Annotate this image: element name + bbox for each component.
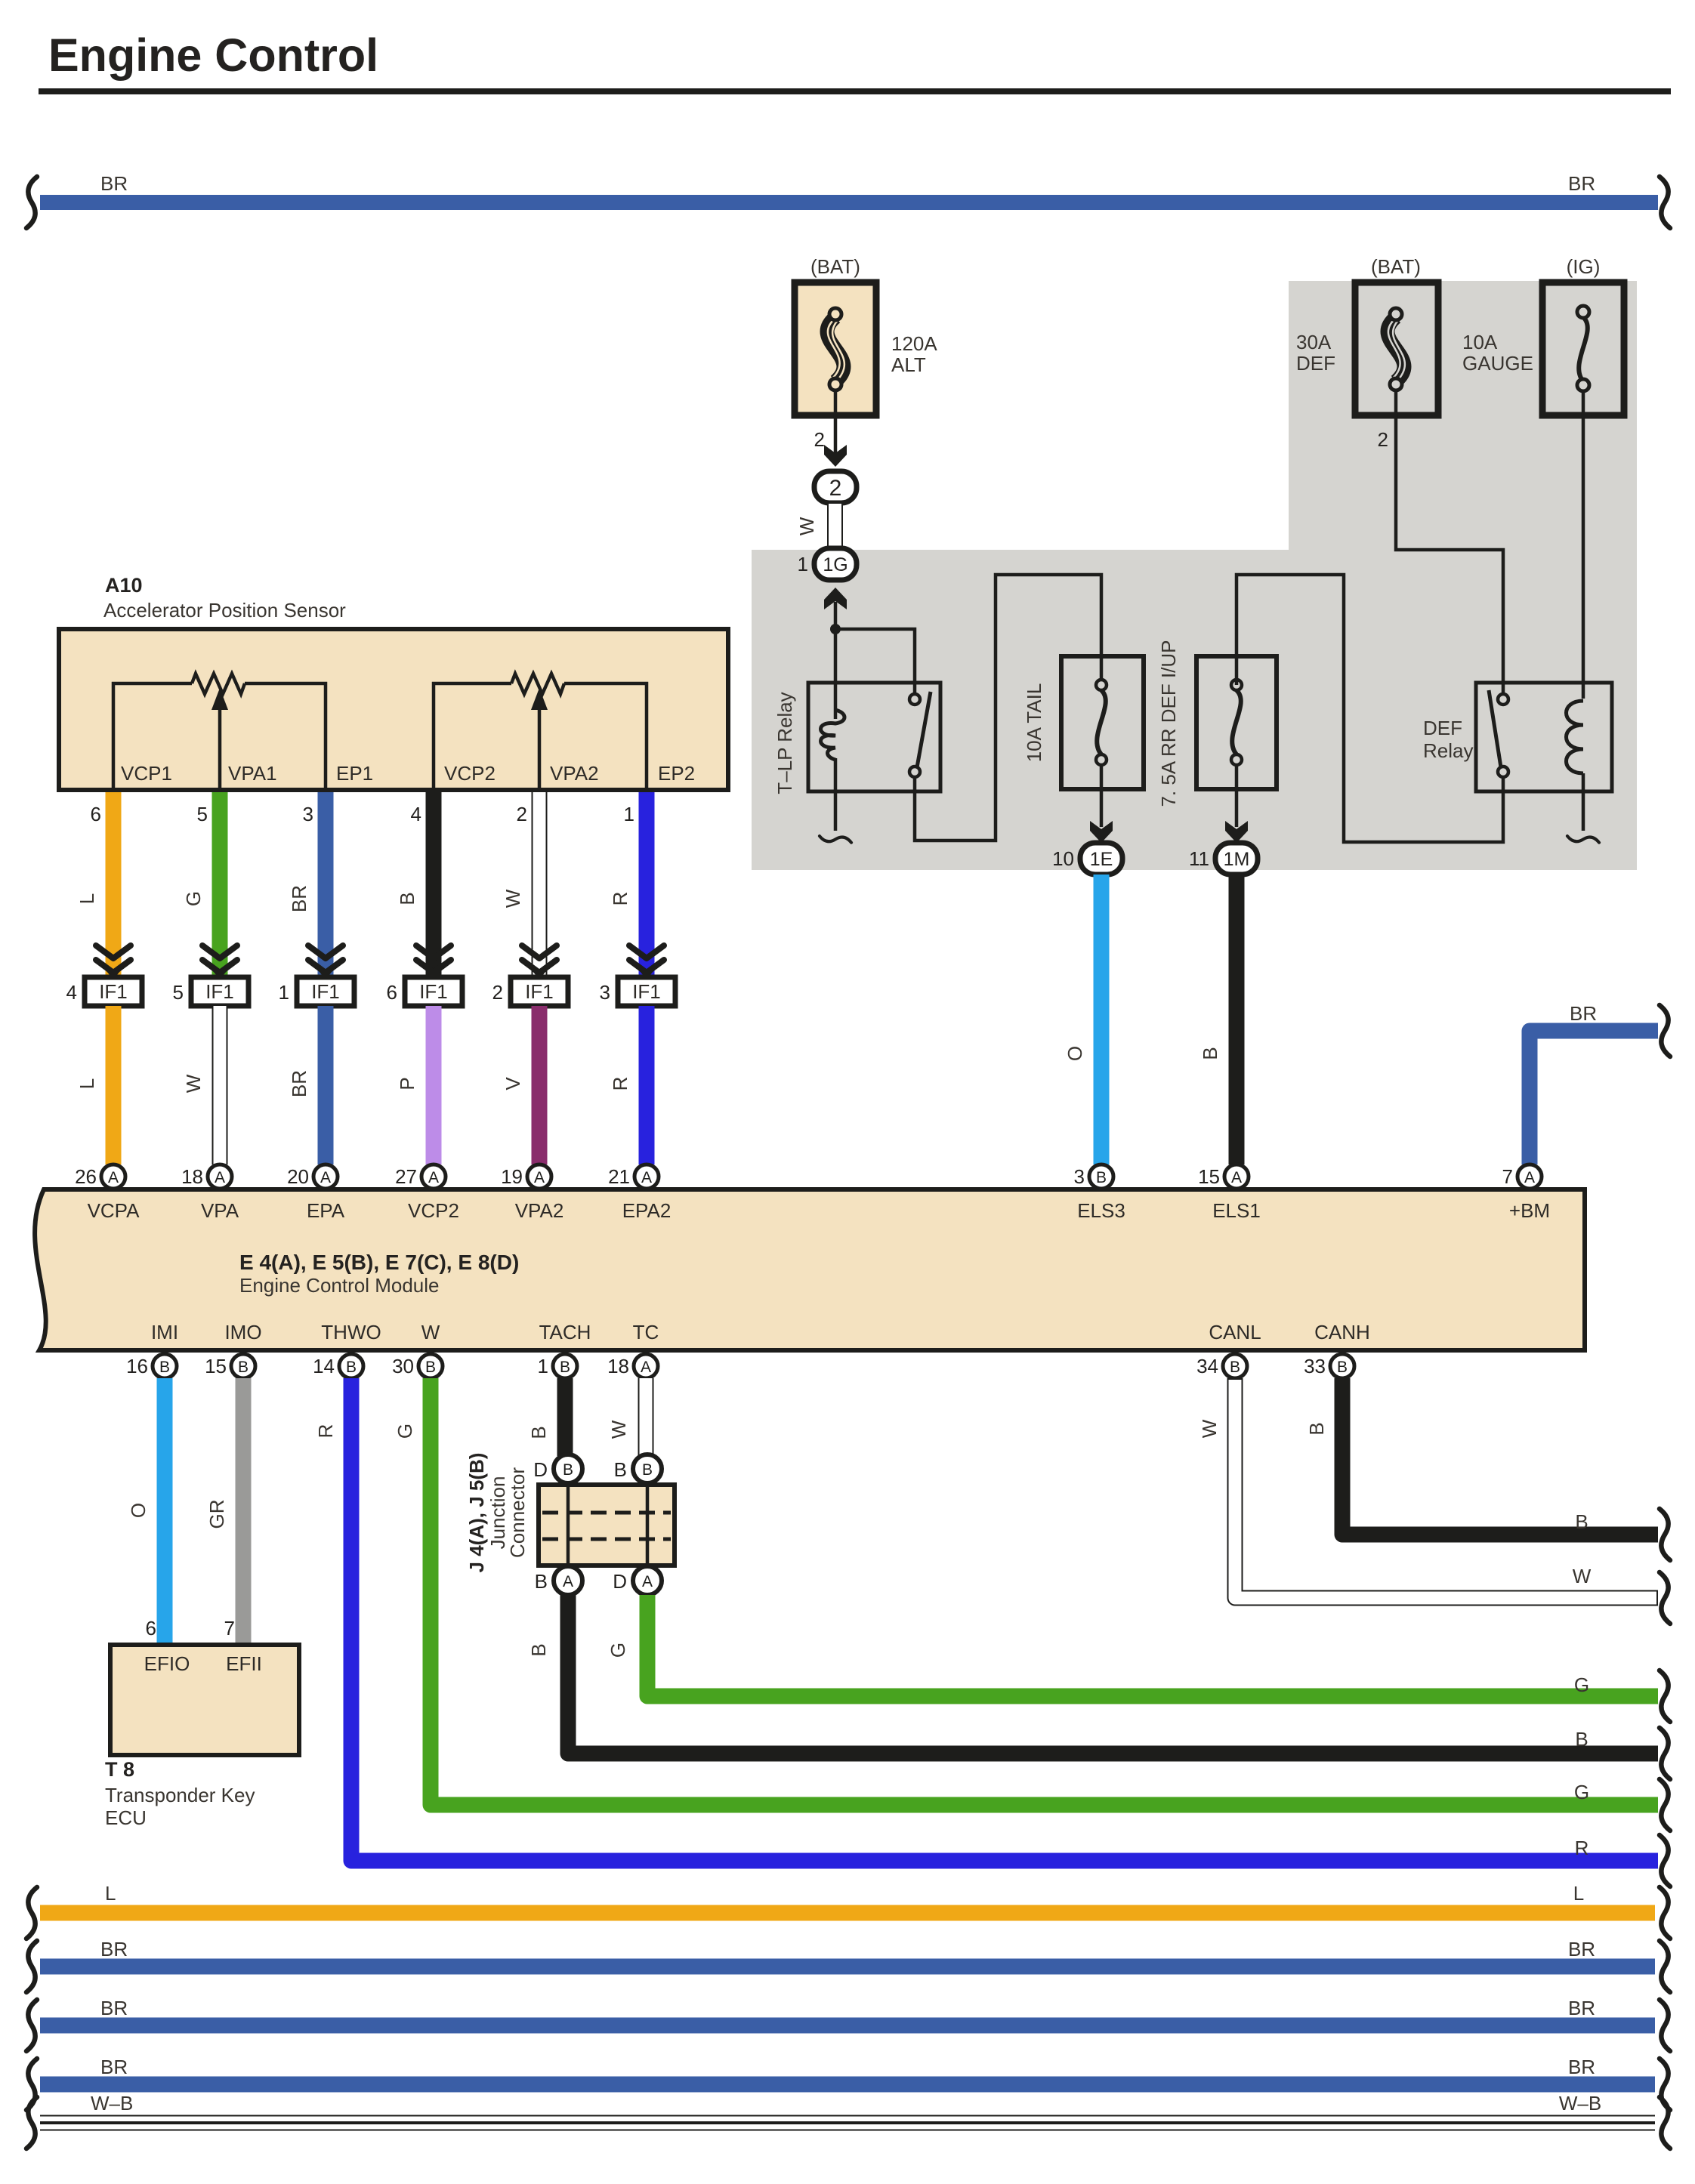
- wire G from W pin down and right: [394, 1378, 1658, 1805]
- svg-text:20: 20: [287, 1165, 309, 1188]
- svg-text:BR: BR: [100, 1938, 128, 1960]
- svg-text:EFII: EFII: [226, 1652, 262, 1675]
- svg-text:B: B: [527, 1426, 550, 1439]
- svg-text:CANH: CANH: [1314, 1321, 1370, 1343]
- svg-text:7: 7: [1502, 1165, 1513, 1188]
- node pin 19 A VPA2: [501, 1164, 551, 1189]
- svg-text:7. 5A RR DEF I/UP: 7. 5A RR DEF I/UP: [1157, 640, 1180, 807]
- connector IF1 #6: [387, 977, 462, 1006]
- svg-text:IMO: IMO: [224, 1321, 261, 1343]
- svg-text:BR: BR: [288, 885, 310, 912]
- svg-text:DEF: DEF: [1423, 717, 1462, 739]
- svg-text:1: 1: [624, 803, 634, 825]
- svg-text:A: A: [428, 1169, 439, 1186]
- connector arrow up out of 1G: [824, 588, 847, 609]
- svg-text:A: A: [108, 1169, 119, 1186]
- svg-text:18: 18: [181, 1165, 203, 1188]
- svg-text:6: 6: [146, 1617, 156, 1640]
- wire B from junction down and right: [527, 1595, 1658, 1754]
- wire BR to ECM +BM with break curl: [1530, 1002, 1658, 1164]
- svg-text:G: G: [1574, 1781, 1589, 1803]
- svg-text:W: W: [502, 889, 524, 908]
- svg-text:21: 21: [608, 1165, 630, 1188]
- svg-text:Transponder Key: Transponder Key: [105, 1784, 255, 1806]
- svg-text:7: 7: [224, 1617, 235, 1640]
- svg-text:VCP2: VCP2: [408, 1199, 459, 1222]
- connector arrow into 1M: [1225, 821, 1248, 843]
- svg-text:BR: BR: [100, 172, 128, 195]
- wire BR bottom row 3: [40, 2056, 1655, 2093]
- wire L IF1 to ECM pin 26: [76, 1006, 122, 1164]
- fuse 120A ALT: [795, 255, 937, 415]
- wire pin2 30A DEF to DEF relay: [1378, 390, 1503, 695]
- svg-text:IF1: IF1: [205, 980, 234, 1003]
- connector oval 1G: [798, 548, 857, 580]
- wire R IF1 to ECM pin 21: [609, 1006, 655, 1164]
- potentiometer 1 (VCP1/VPA1/EP1): [113, 674, 326, 790]
- svg-text:B: B: [425, 1359, 436, 1376]
- svg-text:IF1: IF1: [419, 980, 448, 1003]
- svg-text:4: 4: [66, 981, 77, 1004]
- wire R from EP2 pin 1: [609, 792, 655, 976]
- svg-text:10A TAIL: 10A TAIL: [1023, 683, 1045, 763]
- wire W TC to junction connector: [607, 1378, 654, 1456]
- svg-text:W: W: [1573, 1565, 1592, 1587]
- wire BR bottom row 2: [40, 1997, 1655, 2034]
- wire T-LP switch to 10A TAIL fuse: [915, 575, 1101, 841]
- svg-text:GAUGE: GAUGE: [1462, 352, 1533, 375]
- svg-text:EPA2: EPA2: [622, 1199, 672, 1222]
- connector oval 1M: [1189, 843, 1258, 875]
- node pin 18 A TC: [607, 1354, 658, 1378]
- wire B CANH down and right: [1305, 1378, 1658, 1535]
- svg-text:BR: BR: [288, 1070, 310, 1097]
- fuse 30A DEF: [1296, 255, 1438, 415]
- svg-text:IF1: IF1: [632, 980, 661, 1003]
- svg-text:33: 33: [1304, 1355, 1326, 1377]
- svg-text:D: D: [613, 1570, 627, 1593]
- svg-text:B: B: [563, 1461, 573, 1479]
- svg-text:EP1: EP1: [336, 762, 373, 785]
- svg-text:R: R: [314, 1424, 337, 1439]
- svg-text:G: G: [1574, 1673, 1589, 1696]
- ECM Engine Control Module box: [35, 1189, 1585, 1350]
- svg-text:B: B: [560, 1359, 570, 1376]
- connector IF1 #4: [66, 977, 142, 1006]
- wire V IF1 to ECM pin 19: [502, 1006, 548, 1164]
- svg-text:EFIO: EFIO: [144, 1652, 190, 1675]
- svg-text:ECU: ECU: [105, 1806, 147, 1829]
- node pin 16 B IMI: [126, 1354, 177, 1378]
- connector IF1 #1: [279, 977, 354, 1006]
- wire W CANL down and right: [1198, 1378, 1658, 1598]
- node junction dot: [830, 624, 841, 634]
- connector IF1 #3: [600, 977, 675, 1006]
- wire O IMI to EFIO: [127, 1378, 173, 1645]
- svg-text:W: W: [1198, 1419, 1221, 1438]
- svg-text:W: W: [795, 517, 818, 535]
- wire BR from EP1 pin 3: [288, 792, 334, 976]
- svg-text:34: 34: [1196, 1355, 1218, 1377]
- svg-text:BR: BR: [1568, 2056, 1595, 2078]
- wire B TACH to junction connector: [527, 1378, 573, 1456]
- wire G from VPA1 pin 5: [182, 792, 228, 976]
- connector oval 1E: [1052, 843, 1122, 875]
- wire BR top horizontal: [40, 172, 1658, 210]
- fuse 10A TAIL: [1023, 656, 1144, 789]
- wire B from 1M to ECM ELS1: [1199, 875, 1245, 1164]
- svg-text:26: 26: [75, 1165, 97, 1188]
- svg-text:16: 16: [126, 1355, 148, 1377]
- wire break curl top-left: [26, 177, 37, 228]
- svg-text:30A: 30A: [1296, 331, 1332, 353]
- svg-text:A: A: [641, 1169, 652, 1186]
- wire BR IF1 to ECM pin 20: [288, 1006, 334, 1164]
- svg-text:D: D: [533, 1458, 548, 1481]
- svg-text:A10: A10: [105, 574, 143, 597]
- svg-text:1E: 1E: [1090, 849, 1113, 870]
- svg-text:BR: BR: [100, 2056, 128, 2078]
- wire W-B bottom row: [40, 2092, 1655, 2131]
- svg-text:IF1: IF1: [311, 980, 340, 1003]
- pin labels inside A10: [121, 762, 695, 785]
- svg-text:VPA1: VPA1: [228, 762, 277, 785]
- svg-text:E 4(A), E 5(B), E 7(C), E 8(D): E 4(A), E 5(B), E 7(C), E 8(D): [239, 1251, 519, 1274]
- svg-text:THWO: THWO: [321, 1321, 381, 1343]
- wire P IF1 to ECM pin 27: [396, 1006, 442, 1164]
- node pin 15 B IMO: [205, 1354, 255, 1378]
- svg-text:1: 1: [798, 553, 808, 575]
- wire 10A TAIL to 1E: [1100, 765, 1104, 827]
- wire 10A GAUGE to DEF relay coil: [1582, 391, 1585, 699]
- svg-text:B: B: [1337, 1359, 1348, 1376]
- connector IF1 #2: [492, 977, 568, 1006]
- svg-text:A: A: [642, 1573, 653, 1590]
- svg-text:V: V: [502, 1077, 524, 1090]
- svg-text:W: W: [182, 1074, 205, 1093]
- svg-text:11: 11: [1189, 847, 1209, 870]
- svg-text:O: O: [127, 1503, 150, 1518]
- svg-text:6: 6: [387, 981, 397, 1004]
- svg-text:A: A: [1524, 1169, 1535, 1186]
- svg-text:L: L: [76, 893, 98, 904]
- wire 7.5A fuse to 1M: [1235, 765, 1239, 827]
- connector arrow into oval 2: [824, 445, 847, 467]
- svg-text:1M: 1M: [1224, 849, 1250, 870]
- svg-text:ELS1: ELS1: [1212, 1199, 1261, 1222]
- svg-text:B: B: [1575, 1728, 1588, 1751]
- svg-text:B: B: [642, 1461, 653, 1479]
- svg-text:Relay: Relay: [1423, 739, 1473, 762]
- relay T-LP: [773, 629, 940, 831]
- svg-text:5: 5: [197, 803, 208, 825]
- gray relay box background: [752, 281, 1637, 870]
- svg-text:EPA: EPA: [307, 1199, 345, 1222]
- svg-text:W–B: W–B: [91, 2092, 133, 2115]
- svg-text:10: 10: [1052, 847, 1074, 870]
- node pin 7 A +BM: [1502, 1164, 1542, 1189]
- svg-text:VCPA: VCPA: [88, 1199, 140, 1222]
- svg-text:R: R: [609, 892, 631, 906]
- wire pin2 below ALT fuse: [814, 390, 835, 453]
- svg-text:B: B: [396, 892, 418, 905]
- svg-text:A: A: [320, 1169, 331, 1186]
- component A10 Accelerator Position Sensor: [59, 574, 728, 790]
- svg-text:G: G: [182, 891, 205, 906]
- svg-text:2: 2: [814, 428, 825, 451]
- svg-text:(BAT): (BAT): [1371, 255, 1421, 278]
- svg-text:19: 19: [501, 1165, 523, 1188]
- node pin 3 B ELS3: [1074, 1164, 1113, 1189]
- node pin 1 B TACH: [538, 1354, 577, 1378]
- svg-text:ALT: ALT: [891, 353, 926, 376]
- svg-text:18: 18: [607, 1355, 629, 1377]
- svg-text:B: B: [1305, 1422, 1328, 1435]
- svg-text:B: B: [527, 1643, 550, 1656]
- wire GR IMO to EFII: [205, 1378, 252, 1645]
- wire O from 1E to ECM ELS3: [1064, 875, 1110, 1164]
- svg-text:VPA2: VPA2: [515, 1199, 564, 1222]
- wire W IF1 to ECM pin 18: [182, 1006, 228, 1164]
- svg-text:B: B: [346, 1359, 357, 1376]
- svg-text:B: B: [1575, 1510, 1588, 1533]
- wire B from VCP2 pin 4: [396, 792, 442, 976]
- svg-text:W–B: W–B: [1559, 2092, 1601, 2115]
- svg-text:J 4(A), J 5(B): J 4(A), J 5(B): [465, 1453, 488, 1573]
- svg-text:Engine Control: Engine Control: [48, 29, 378, 81]
- node pin 30 B W: [392, 1354, 443, 1378]
- svg-text:1: 1: [538, 1355, 548, 1377]
- svg-text:Engine Control Module: Engine Control Module: [239, 1274, 440, 1297]
- connector IF1 #5: [173, 977, 249, 1006]
- svg-text:A: A: [1231, 1169, 1242, 1186]
- svg-text:IF1: IF1: [525, 980, 554, 1003]
- svg-text:Connector: Connector: [506, 1467, 529, 1558]
- node pin 20 A EPA: [287, 1164, 338, 1189]
- svg-text:G: G: [394, 1424, 416, 1439]
- wire W white between oval 2 and 1G: [795, 504, 843, 551]
- svg-text:6: 6: [91, 803, 101, 825]
- node pin 21 A EPA2: [608, 1164, 659, 1189]
- svg-text:VPA2: VPA2: [550, 762, 599, 785]
- svg-text:A: A: [215, 1169, 225, 1186]
- svg-text:VPA: VPA: [201, 1199, 239, 1222]
- svg-text:G: G: [607, 1643, 629, 1658]
- svg-text:TC: TC: [633, 1321, 659, 1343]
- svg-text:120A: 120A: [891, 332, 937, 355]
- svg-text:(BAT): (BAT): [810, 255, 860, 278]
- junction connector box: [465, 1453, 675, 1573]
- svg-text:BR: BR: [1570, 1002, 1597, 1025]
- svg-text:B: B: [1230, 1359, 1240, 1376]
- fuse 7.5A RR DEF I/UP: [1157, 640, 1277, 807]
- svg-text:R: R: [1575, 1837, 1589, 1859]
- svg-text:A: A: [641, 1359, 651, 1376]
- svg-text:W: W: [421, 1321, 440, 1343]
- node pin 33 B CANH: [1304, 1354, 1354, 1378]
- wire from 1G arrow to junction node: [834, 602, 838, 629]
- svg-text:B: B: [238, 1359, 249, 1376]
- svg-text:EP2: EP2: [658, 762, 695, 785]
- svg-text:A: A: [563, 1573, 573, 1590]
- svg-text:15: 15: [1198, 1165, 1220, 1188]
- wire node to T-LP relay switch: [835, 629, 915, 693]
- title Engine Control: [39, 29, 1671, 94]
- node pin 34 B CANL: [1196, 1354, 1247, 1378]
- svg-text:CANL: CANL: [1209, 1321, 1261, 1343]
- svg-text:14: 14: [313, 1355, 335, 1377]
- svg-text:4: 4: [411, 803, 421, 825]
- svg-text:DEF: DEF: [1296, 352, 1335, 375]
- svg-text:O: O: [1064, 1046, 1086, 1061]
- component T8 Transponder Key ECU: [105, 1645, 299, 1829]
- node pin 26 A VCPA: [75, 1164, 125, 1189]
- svg-text:VCP2: VCP2: [444, 762, 496, 785]
- wire G from junction down and right: [607, 1595, 1658, 1696]
- svg-text:3: 3: [1074, 1165, 1085, 1188]
- svg-text:3: 3: [303, 803, 313, 825]
- svg-text:2: 2: [492, 981, 503, 1004]
- svg-text:2: 2: [1378, 428, 1388, 451]
- wire BR bottom row 1: [40, 1938, 1655, 1975]
- svg-text:W: W: [607, 1420, 630, 1439]
- svg-text:B: B: [1096, 1169, 1107, 1186]
- wire L from VCP1 pin 6: [76, 792, 122, 976]
- potentiometer 2 (VCP2/VPA2/EP2): [434, 674, 647, 790]
- svg-text:T–LP Relay: T–LP Relay: [773, 692, 796, 794]
- svg-text:GR: GR: [205, 1500, 228, 1529]
- node junction pin D B top: [533, 1454, 582, 1483]
- node pin 14 B THWO: [313, 1354, 363, 1378]
- node junction pin B A bottom: [535, 1566, 582, 1595]
- svg-text:B: B: [1199, 1047, 1221, 1060]
- svg-text:1G: 1G: [823, 554, 847, 575]
- svg-text:L: L: [1573, 1882, 1584, 1905]
- connector arrow into 1E: [1090, 821, 1113, 843]
- svg-text:B: B: [535, 1570, 548, 1593]
- ground curl below DEF relay coil: [1567, 836, 1599, 843]
- svg-text:L: L: [76, 1078, 98, 1089]
- svg-text:15: 15: [205, 1355, 227, 1377]
- svg-text:30: 30: [392, 1355, 414, 1377]
- relay DEF: [1423, 683, 1612, 831]
- node pin 15 A ELS1: [1198, 1164, 1249, 1189]
- svg-text:1: 1: [279, 981, 289, 1004]
- node pin 27 A VCP2: [395, 1164, 446, 1189]
- svg-text:5: 5: [173, 981, 184, 1004]
- svg-text:R: R: [609, 1077, 631, 1091]
- connector oval 2: [814, 471, 857, 503]
- svg-text:B: B: [614, 1458, 627, 1481]
- svg-text:IF1: IF1: [99, 980, 128, 1003]
- svg-text:(IG): (IG): [1567, 255, 1601, 278]
- svg-text:P: P: [396, 1077, 418, 1090]
- wire break curl top-right: [1659, 177, 1670, 228]
- svg-text:ELS3: ELS3: [1077, 1199, 1125, 1222]
- wire W from VPA2 pin 2: [502, 792, 548, 976]
- fuse 10A GAUGE: [1462, 255, 1624, 415]
- svg-text:2: 2: [517, 803, 527, 825]
- wire L bottom full row: [40, 1882, 1655, 1921]
- svg-text:TACH: TACH: [539, 1321, 591, 1343]
- svg-text:A: A: [534, 1169, 545, 1186]
- svg-text:3: 3: [600, 981, 610, 1004]
- svg-text:T 8: T 8: [105, 1758, 134, 1781]
- node junction pin B B top: [614, 1454, 662, 1483]
- wire 7.5A fuse to DEF relay switch: [1237, 575, 1503, 842]
- svg-text:Accelerator Position Sensor: Accelerator Position Sensor: [103, 599, 346, 622]
- svg-text:VCP1: VCP1: [121, 762, 172, 785]
- svg-text:27: 27: [395, 1165, 417, 1188]
- wire R THWO down and right: [314, 1378, 1658, 1861]
- svg-text:BR: BR: [100, 1997, 128, 2019]
- svg-text:2: 2: [829, 476, 842, 501]
- svg-text:B: B: [159, 1359, 170, 1376]
- node junction pin D A bottom: [613, 1566, 662, 1595]
- svg-text:BR: BR: [1568, 172, 1595, 195]
- svg-text:BR: BR: [1568, 1938, 1595, 1960]
- connector arrows into IF1 row: [96, 945, 131, 979]
- svg-text:IMI: IMI: [151, 1321, 178, 1343]
- svg-text:L: L: [105, 1882, 116, 1905]
- svg-text:BR: BR: [1568, 1997, 1595, 2019]
- svg-text:10A: 10A: [1462, 331, 1498, 353]
- ground curl below T-LP coil: [820, 836, 851, 843]
- node pin 18 A VPA: [181, 1164, 232, 1189]
- svg-text:+BM: +BM: [1509, 1199, 1550, 1222]
